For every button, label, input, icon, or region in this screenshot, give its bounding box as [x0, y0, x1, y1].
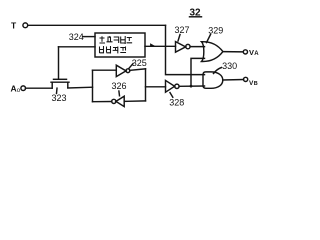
label 327	[175, 25, 190, 35]
label 324 leader	[83, 36, 95, 38]
node VB label	[249, 80, 258, 87]
svg-text:328: 328	[169, 98, 184, 108]
svg-text:T: T	[11, 20, 17, 30]
latch top edge left segment	[93, 69, 117, 71]
label 330	[222, 61, 237, 71]
junction 328 output branch	[190, 85, 193, 88]
svg-text:327: 327	[175, 25, 190, 35]
inverter 328 triangle	[166, 80, 175, 92]
one-shot box text line2 (Korean approximated strokes)	[100, 47, 126, 54]
inverter 325 triangle	[116, 65, 126, 76]
transistor Q 323 gate bar	[54, 78, 67, 80]
latch left edge	[92, 70, 94, 102]
transistor Q 323 drain stub	[67, 82, 69, 88]
wire latch output to inverter 328	[146, 86, 166, 88]
inverter 328 bubble	[175, 84, 179, 88]
AND gate 330	[203, 72, 223, 88]
svg-text:325: 325	[132, 58, 147, 68]
wire 330 output	[223, 79, 244, 82]
figure number 32	[190, 7, 202, 18]
svg-text:V: V	[249, 48, 254, 57]
latch right edge	[145, 69, 147, 101]
svg-text:A: A	[254, 51, 259, 57]
node VB terminal circle	[244, 77, 248, 81]
inverter 325 bubble	[126, 69, 130, 73]
inverter 326 bubble	[112, 99, 116, 103]
label 324	[69, 32, 84, 42]
node T terminal label	[11, 20, 17, 30]
svg-text:323: 323	[52, 93, 67, 103]
transistor Q 323 source stub	[51, 82, 53, 88]
node VA terminal circle	[243, 50, 247, 54]
label 323	[52, 93, 67, 103]
node VA label	[249, 48, 259, 57]
label 325	[132, 58, 147, 68]
svg-text:A: A	[11, 84, 17, 94]
wire one-shot output to inverter 327	[145, 45, 176, 47]
latch bottom edge right segment	[124, 100, 145, 103]
svg-text:B: B	[254, 81, 258, 87]
wire 329 output	[223, 51, 243, 53]
wire 328 branch up to 329	[191, 58, 205, 86]
wire A0 to transistor	[26, 87, 53, 89]
one-shot box text line1 (Korean approximated strokes)	[100, 37, 132, 44]
figure number 32 underline	[190, 16, 202, 18]
inverter 326 triangle	[116, 96, 124, 106]
label 328 leader	[170, 93, 173, 98]
one-shot box U324	[95, 33, 145, 57]
label 327 leader	[178, 35, 180, 42]
wire T horizontal top	[28, 24, 166, 26]
OR gate 329	[202, 42, 223, 62]
wire T vertical drop	[166, 25, 205, 74]
svg-text:326: 326	[112, 81, 127, 91]
wire 328 output to AND gate 330	[179, 85, 204, 87]
wire one-shot input from gate node	[59, 46, 96, 48]
svg-text:324: 324	[69, 32, 84, 42]
arrowhead on one-shot output	[151, 44, 156, 46]
wire 327 output to OR gate 329	[190, 46, 204, 48]
latch top edge right segment	[130, 69, 146, 71]
label 326 leader	[118, 91, 121, 96]
label 323 leader	[56, 88, 59, 93]
label 330 leader	[214, 68, 222, 74]
transistor Q 323 gate wire	[58, 47, 60, 79]
svg-text:330: 330	[222, 61, 237, 71]
label 329 leader	[207, 35, 211, 43]
latch bottom edge left segment	[93, 101, 112, 103]
inverter 327 triangle	[176, 42, 186, 53]
node A0 terminal circle	[21, 86, 26, 91]
label 329	[208, 25, 223, 35]
label 326	[112, 81, 127, 91]
label 325 leader	[129, 64, 133, 69]
inverter 327 bubble	[186, 44, 190, 48]
svg-text:329: 329	[208, 25, 223, 35]
node A0 terminal label	[11, 84, 21, 94]
node T terminal circle	[23, 23, 28, 28]
wire transistor to latch	[68, 86, 93, 89]
label 328	[169, 98, 184, 108]
transistor Q 323 channel bar	[51, 81, 69, 83]
